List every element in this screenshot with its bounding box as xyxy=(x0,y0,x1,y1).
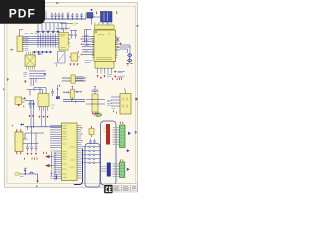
bus lines below U9 xyxy=(63,98,85,102)
capacitor bank C5-C8 xyxy=(67,13,83,19)
bus entry diamond Q1 xyxy=(44,73,47,75)
connector CN1 body xyxy=(101,121,117,185)
U10 crossing wires xyxy=(86,100,105,104)
regulator U9 small xyxy=(70,89,74,98)
wire risers to top border xyxy=(46,11,86,20)
U7 pins bottom xyxy=(40,107,48,127)
CN1 key tab 2 xyxy=(103,131,106,133)
U5 power flag xyxy=(77,51,79,53)
J1 pins xyxy=(22,99,29,102)
pin marks row upper right xyxy=(113,78,122,80)
U2 pins right xyxy=(23,38,25,51)
sheet outer border xyxy=(5,3,138,188)
JP1 jumper links xyxy=(91,147,93,163)
J3 power marks xyxy=(120,159,123,161)
net tag small xyxy=(56,96,60,99)
wire comb below badge xyxy=(38,23,66,31)
bus segment mid-left xyxy=(29,71,46,79)
K1 pins top xyxy=(17,129,21,132)
connector J1 xyxy=(15,97,22,104)
header J3 ladder xyxy=(113,164,120,177)
regulator U10 xyxy=(92,94,98,112)
thick return wire xyxy=(74,149,83,185)
D3 flags xyxy=(94,114,101,116)
junction dots on power rail xyxy=(52,18,82,20)
net arrow row 2 xyxy=(33,51,52,54)
ground flag mid-left xyxy=(24,80,26,82)
capacitor C13 C14 xyxy=(29,101,35,109)
JP1 jumper circles xyxy=(89,146,95,164)
net flag arrow A xyxy=(45,155,50,158)
U10 net labels xyxy=(107,100,112,105)
label marks left of U6 xyxy=(85,61,93,63)
power flags right of U1 xyxy=(117,39,122,49)
wire to U1 left xyxy=(85,30,92,45)
bus drop wires xyxy=(31,79,36,87)
ground flags below C18-C20 xyxy=(27,153,37,155)
polarity dots C16 C17 xyxy=(64,87,81,93)
U8 pins left upper xyxy=(50,126,62,148)
D1 D2 link wire xyxy=(129,54,131,63)
U1 pins left xyxy=(82,36,94,54)
crystal Y1 xyxy=(101,12,113,23)
Y1 stripes xyxy=(104,13,108,22)
page background xyxy=(0,0,149,198)
wires JP1 to CN1 xyxy=(95,147,100,163)
J2 power marks xyxy=(120,122,123,124)
connector J2 xyxy=(120,125,126,148)
wire through arrow row 2 xyxy=(32,51,52,53)
title block logo glyphs xyxy=(106,187,112,193)
net label power entry xyxy=(15,172,19,175)
ground flags below U10 xyxy=(92,113,99,115)
arrow right of J3 xyxy=(127,168,130,171)
U1 left pin flags xyxy=(80,38,82,55)
frame reference tick right lower xyxy=(135,98,137,100)
transformer T1 lines xyxy=(62,77,86,81)
U6 pins bottom xyxy=(98,68,112,73)
K1 wire right xyxy=(23,139,39,144)
U4 pins bottom xyxy=(27,66,35,69)
S1 lever xyxy=(54,54,64,68)
CN1 blue housing xyxy=(107,163,111,177)
J4 lower marks xyxy=(114,110,117,113)
frame reference tick top xyxy=(56,2,58,4)
U8 left vertical feeds xyxy=(52,150,56,181)
header J2 ladder xyxy=(113,128,120,145)
title block ruled rows xyxy=(113,186,138,191)
arrow right of J2 xyxy=(128,132,131,136)
R5 flags xyxy=(90,126,92,137)
CN1 red housing xyxy=(106,124,110,145)
node dot above C9 xyxy=(91,9,93,11)
bus net labels xyxy=(25,33,38,35)
U6 pin labels xyxy=(107,75,112,77)
LED D3 xyxy=(96,113,100,116)
Y1 leads xyxy=(92,17,109,25)
wire U2 top xyxy=(20,30,24,37)
U1 pins right xyxy=(116,38,120,50)
J1 down flag xyxy=(18,104,20,107)
power flag above node xyxy=(59,85,61,87)
J3 pin stripes xyxy=(120,165,125,175)
wire through arrow row 1 xyxy=(36,31,60,33)
U3 pins right xyxy=(68,35,70,47)
wire row lower xyxy=(25,133,44,139)
test point labels TP3 TP4 xyxy=(114,76,116,78)
wire C9 to rail xyxy=(89,18,91,19)
U5 pins xyxy=(69,56,80,58)
regulator U5 xyxy=(71,53,78,61)
capacitor bank C18-C20 xyxy=(26,127,37,152)
fuse F1 xyxy=(71,75,75,83)
J1 plus mark xyxy=(24,97,26,99)
title block outline xyxy=(104,184,138,192)
junction dots on rows xyxy=(28,126,34,128)
ground flags below U6 xyxy=(97,75,106,79)
J4 lower label xyxy=(112,107,115,109)
U2 pin labels xyxy=(25,38,28,51)
title block column dividers xyxy=(122,184,138,191)
wire stub bottom-center xyxy=(56,174,58,180)
frame reference tick bottom xyxy=(36,185,37,187)
bus crossing wires xyxy=(38,34,56,48)
relay K1 xyxy=(15,132,23,152)
bus data lines xyxy=(23,37,59,45)
PDF badge xyxy=(0,0,45,24)
U4 cross marks xyxy=(25,55,35,66)
ground flags below U7 xyxy=(39,116,49,118)
frame reference tick left upper xyxy=(11,49,13,50)
wire corner run xyxy=(27,90,43,96)
ground flags below C13 C14 xyxy=(24,106,34,118)
bus entry diamonds xyxy=(71,99,77,103)
U10 top cap xyxy=(92,88,99,94)
wires into CN1 lower xyxy=(101,167,107,172)
net label VCC xyxy=(73,22,77,25)
junction dot bottom-center xyxy=(56,176,57,177)
K1 pins bottom xyxy=(17,152,21,155)
U8 pins right xyxy=(77,126,81,179)
D4 junction dot xyxy=(25,173,26,174)
wire secondary top rail xyxy=(60,23,78,25)
zener D4 xyxy=(24,169,26,172)
IC U2 xyxy=(17,36,23,52)
capacitor C9 polarized xyxy=(87,13,93,19)
header stack lines xyxy=(76,77,84,81)
label marks bottom-left xyxy=(20,174,54,179)
CN1 key tabs xyxy=(103,127,106,129)
U7 top wires xyxy=(34,88,46,94)
node cross lower left xyxy=(20,123,23,126)
J4 top flag xyxy=(124,89,126,91)
U10 power flag xyxy=(94,86,96,88)
U8 inner pin names xyxy=(63,126,76,178)
IC U7 xyxy=(38,94,49,107)
capacitor C10 C11 pair xyxy=(70,31,77,39)
net tag above U3 xyxy=(56,27,60,30)
capacitor bank C16 C17 xyxy=(65,91,81,94)
title block text marks xyxy=(114,186,137,190)
capacitor pair above JP1 xyxy=(89,139,96,144)
arrow between headers xyxy=(127,149,130,152)
J4 pins left xyxy=(111,97,120,106)
inductor L1 xyxy=(30,172,34,174)
module U6 xyxy=(95,62,114,69)
net flag arrow B xyxy=(45,164,50,167)
frame reference tick left lower xyxy=(3,89,4,91)
U9 top stub xyxy=(71,88,73,90)
wire vertical node xyxy=(57,85,59,99)
RN1 leads xyxy=(95,22,111,24)
sheet inner border xyxy=(7,6,136,183)
J4 inner marks xyxy=(123,98,127,108)
net arrow down xyxy=(36,181,38,184)
wire power entry run xyxy=(19,174,38,181)
capacitor C15 xyxy=(51,89,54,96)
ground flags below U5 xyxy=(70,63,79,65)
connector J4 xyxy=(120,94,131,115)
connector J3 xyxy=(120,162,125,178)
IC U3 xyxy=(59,33,68,51)
wire U1 to X2 xyxy=(120,45,130,53)
U3 pins left xyxy=(57,35,59,47)
MCU U1 xyxy=(94,30,116,62)
wire branch to U3 xyxy=(56,28,70,32)
U3 inner text xyxy=(61,35,66,48)
U1 left pin labels xyxy=(84,35,89,51)
vertical wire pair left xyxy=(31,101,34,127)
net arrow row 1 xyxy=(37,30,60,33)
label marks center xyxy=(51,105,55,108)
J2 pin stripes xyxy=(120,128,126,145)
power mark left border xyxy=(7,78,9,81)
pin marks row bottom-left xyxy=(25,152,47,160)
net tag U3 corner xyxy=(67,46,70,49)
power flags right of U8 xyxy=(81,127,83,142)
jumper block JP1 xyxy=(85,144,100,188)
arrow near border xyxy=(135,131,137,134)
wire top power rail xyxy=(40,18,86,20)
title block logo xyxy=(104,185,112,194)
wires U8 to JP1 xyxy=(81,147,88,163)
switch S1 box xyxy=(58,51,65,63)
diode D2 xyxy=(128,59,132,63)
U1 inner text xyxy=(96,33,112,60)
ground marks below diodes xyxy=(126,64,132,66)
pin mark small left xyxy=(11,125,13,127)
resistor network RN1 xyxy=(95,25,115,29)
svg-text:PDF: PDF xyxy=(9,7,36,21)
pin marks above U1 xyxy=(97,11,117,14)
node dot lower left xyxy=(23,124,24,125)
net labels left of U8 xyxy=(50,149,53,151)
junction dots node xyxy=(57,88,58,89)
schematic sheet area xyxy=(5,3,138,188)
wire row upper xyxy=(25,126,62,128)
frame reference tick right upper xyxy=(137,25,139,27)
flag tail wires xyxy=(50,157,54,166)
U4 pins top xyxy=(27,52,35,55)
net label mid-left xyxy=(24,73,28,77)
J4 top stub xyxy=(125,91,127,94)
U1 pin-1 mark xyxy=(95,31,96,32)
test point labels TP1 TP2 xyxy=(114,71,116,73)
U1 pin stubs fringe xyxy=(92,36,117,57)
capacitor bank C1-C4 xyxy=(51,13,64,20)
diode D1 xyxy=(128,53,132,57)
U8 pins left lower xyxy=(54,151,62,178)
net label 2 left of U8 xyxy=(51,168,54,170)
D4 cathode bar xyxy=(24,168,27,174)
opto U4 xyxy=(25,55,35,66)
resistor R5 xyxy=(89,129,94,135)
capacitor C12 xyxy=(38,53,43,55)
MCU U8 xyxy=(62,123,78,181)
